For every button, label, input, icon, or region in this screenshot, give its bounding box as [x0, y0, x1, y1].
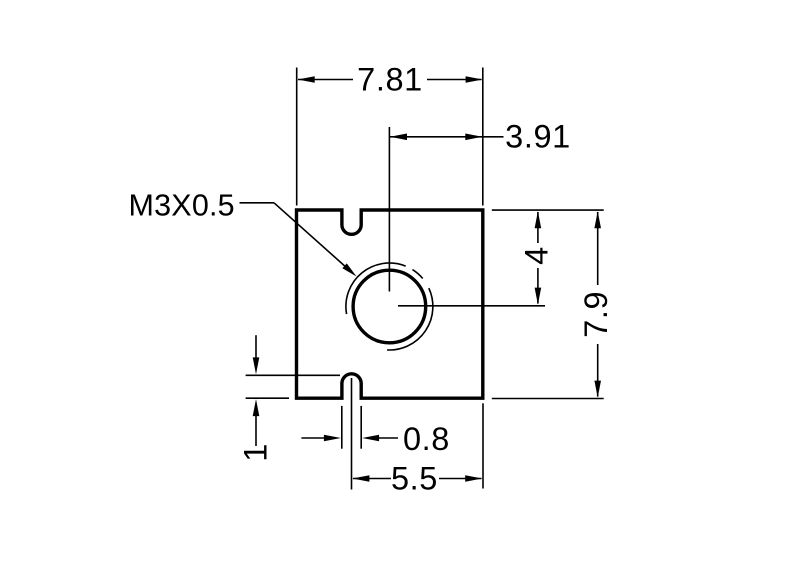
dim 4 line upper	[537, 212, 539, 243]
svg-text:1: 1	[237, 443, 273, 462]
dim 5.5 right extension line	[482, 403, 484, 488]
svg-text:M3X0.5: M3X0.5	[129, 188, 235, 222]
dim 1 lower arrow line	[255, 414, 257, 446]
hole vertical centerline	[388, 127, 390, 292]
dim 1 upper arrow	[253, 357, 260, 374]
leader M3X0.5 arrow	[342, 263, 356, 276]
dim 7.9 bottom extension line	[492, 398, 604, 400]
dim 5.5 center extension line	[351, 378, 353, 490]
dim 5.5 line right	[439, 478, 482, 480]
svg-text:3.91: 3.91	[505, 119, 571, 155]
thread arc dash	[412, 270, 422, 279]
part outline	[297, 210, 483, 398]
svg-text:5.5: 5.5	[391, 461, 438, 497]
leader M3X0.5 diagonal	[274, 203, 352, 273]
dim 7.9 line upper	[597, 212, 599, 285]
dim 0.8 left arrow	[324, 435, 341, 442]
dim 7.81 line left	[298, 79, 353, 81]
dim 7.9 line lower	[597, 344, 599, 397]
dim 4 top arrow	[535, 211, 542, 228]
dim 7.81 right arrow	[466, 76, 483, 83]
hole horizontal centerline	[398, 305, 545, 307]
tapped hole minor circle	[353, 270, 426, 343]
dim 0.8 right arrow	[362, 435, 379, 442]
svg-text:7.9: 7.9	[578, 291, 614, 338]
thread major-diameter arc	[346, 263, 406, 314]
dim 1 lower extension line	[246, 397, 289, 399]
dim 7.81 right extension line	[482, 68, 484, 206]
dim 7.9 top arrow	[594, 211, 601, 228]
dim 1 upper extension line	[246, 374, 340, 376]
dim 1 lower arrow	[253, 399, 260, 416]
dim 3.91 left arrow	[390, 134, 407, 141]
dim 7.9 bottom arrow	[594, 381, 601, 398]
dim 7.81 left extension line	[296, 68, 298, 206]
dim 0.8 left arrow line	[301, 437, 327, 439]
svg-text:0.8: 0.8	[403, 421, 450, 457]
dim 5.5 line left	[353, 478, 391, 480]
thread arc lower right	[387, 288, 433, 350]
dim 5.5 right arrow	[465, 475, 482, 482]
dim 3.91 line	[390, 136, 504, 138]
dim 0.8 right extension line	[360, 406, 362, 449]
svg-text:4: 4	[519, 246, 555, 265]
dim 0.8 left extension line	[341, 406, 343, 449]
dim 4 line lower	[537, 268, 539, 304]
dim 5.5 left arrow	[352, 475, 369, 482]
dim 7.81 line right	[427, 79, 482, 81]
dim 7.81 left arrow	[298, 76, 315, 83]
leader M3X0.5 horizontal	[240, 202, 275, 204]
dim 0.8 right arrow line	[377, 437, 398, 439]
dim 3.91 right arrow	[465, 134, 482, 141]
dim 1 upper arrow line	[255, 335, 257, 360]
svg-text:7.81: 7.81	[357, 62, 423, 98]
dim 4 bottom arrow	[535, 288, 542, 305]
dim 4 top extension line	[492, 209, 604, 211]
